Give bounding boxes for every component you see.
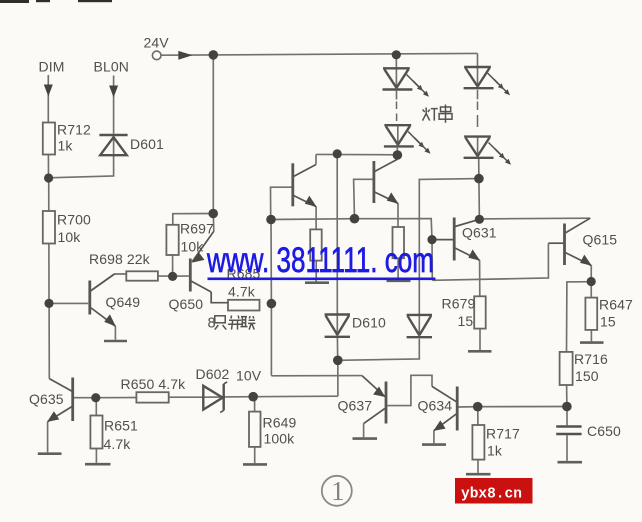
node R712 R700 — [44, 173, 53, 182]
svg-text:4.7k: 4.7k — [104, 436, 132, 452]
wire Tmid1 emitter to resistor — [315, 207, 317, 230]
wire LED4 junction to zener2 — [419, 179, 479, 315]
power terminal 24V — [152, 51, 161, 60]
ground under R649 — [243, 463, 267, 466]
ground under Q637 — [353, 437, 378, 440]
node D610 bottom — [333, 356, 343, 366]
wire zener2 bottom — [338, 339, 420, 361]
wire R717 feed — [477, 407, 479, 425]
wire R651 feed — [95, 398, 97, 416]
svg-text:10k: 10k — [58, 229, 82, 245]
wire D602 to R649 node — [224, 396, 253, 398]
wire through LED1 — [395, 69, 397, 89]
wire 24V vertical feed — [212, 55, 214, 214]
transistor Tmid1 — [293, 163, 317, 207]
svg-text:R679: R679 — [442, 296, 476, 312]
LED2 emission arrows — [408, 132, 431, 154]
label hanzi bing — [228, 316, 243, 330]
zener D602 — [203, 382, 227, 413]
wire BLON to D601 — [113, 76, 115, 134]
wire LED1 to dashes — [396, 91, 398, 100]
node Tmid2 base — [350, 214, 360, 224]
label hanzi lian — [240, 316, 255, 330]
LED string1 dashed gap — [396, 102, 398, 122]
svg-text:R651: R651 — [104, 418, 138, 434]
svg-text:10k: 10k — [181, 239, 205, 255]
wire through LED2 — [397, 126, 399, 146]
resistor R685 — [228, 300, 260, 311]
svg-text:Q650: Q650 — [169, 296, 204, 312]
wire R697 bottom to base node — [172, 255, 174, 277]
wire LED4 to junction — [478, 159, 480, 179]
wire D601 anode down and left to node — [49, 155, 114, 178]
node emitter bus top — [266, 215, 276, 225]
svg-text:Q649: Q649 — [106, 294, 141, 310]
wire Q634 emitter to ground — [433, 431, 435, 444]
wire R697 top jog — [173, 214, 213, 225]
resistor R698 — [126, 271, 158, 280]
ground under R679 — [468, 350, 492, 353]
node R685 right — [267, 299, 277, 309]
svg-text:R697: R697 — [180, 221, 214, 237]
node on 24V rail — [209, 50, 219, 60]
figure number circled 1 — [322, 476, 352, 506]
svg-text:R650 4.7k: R650 4.7k — [121, 376, 187, 392]
transistor Q650 PNP — [190, 231, 228, 302]
wire Q634 base — [459, 406, 478, 408]
transistor Q637 PNP — [362, 376, 386, 424]
resistor R679 — [474, 296, 486, 328]
node R697 top — [208, 209, 218, 219]
resistor R649 — [249, 412, 261, 447]
wire through D610b — [418, 316, 420, 337]
resistor R647 — [585, 298, 597, 330]
wire Q650 emitter feed — [212, 214, 215, 232]
wire through D601 — [113, 136, 115, 155]
svg-text:R700: R700 — [57, 212, 91, 228]
LED1 — [383, 68, 413, 89]
LED3 emission arrows — [488, 73, 511, 95]
node Q649 base — [44, 299, 53, 308]
svg-text:R649: R649 — [263, 415, 297, 431]
label lamp string hanzi deng — [423, 108, 438, 121]
svg-text:Q631: Q631 — [462, 225, 497, 241]
wire Tmid1 collector riser — [315, 154, 317, 164]
svg-text:Q637: Q637 — [338, 398, 373, 414]
transistor Tmid2 — [374, 159, 399, 204]
node Q631 collector — [475, 215, 484, 224]
node R651 top — [91, 393, 100, 402]
svg-text:R716: R716 — [574, 351, 608, 367]
GROUNDS — [38, 281, 604, 474]
node R716 C650 — [562, 402, 572, 412]
wire LED string1 top — [395, 55, 397, 68]
wire DIM chain top — [47, 75, 49, 123]
transistor Q649 — [90, 274, 116, 326]
ground under R651 — [85, 463, 111, 466]
label hanzi zhi — [215, 316, 226, 330]
LED1 emission arrows — [407, 75, 430, 97]
wire Tmid2 base — [354, 179, 373, 218]
wire node to R700 — [48, 178, 50, 211]
wire D610 node down to D602 line — [337, 360, 339, 396]
transistor Q615 — [548, 218, 591, 266]
wire resistor b to ground — [397, 258, 399, 279]
svg-text:24V: 24V — [144, 35, 170, 51]
resistor unlabeled a — [310, 229, 322, 260]
svg-text:BL0N: BL0N — [94, 59, 129, 75]
ground under Q635 — [38, 452, 62, 455]
svg-text:1: 1 — [331, 476, 345, 506]
ground under resistor b — [387, 279, 411, 282]
svg-text:R717: R717 — [486, 426, 520, 442]
diode D601 — [99, 135, 127, 155]
ground under Q649 — [104, 340, 127, 343]
svg-text:D601: D601 — [130, 136, 164, 152]
wire through LED4 — [477, 138, 479, 158]
transistor Q631 — [432, 218, 480, 261]
svg-text:DIM: DIM — [39, 59, 65, 75]
wire Q649 base — [49, 302, 88, 304]
svg-text:D610: D610 — [352, 315, 386, 331]
wire R650 to D602 — [169, 396, 203, 398]
wire R679 to ground — [479, 329, 481, 350]
svg-text:4.7k: 4.7k — [228, 284, 256, 300]
ground under R647 — [580, 341, 604, 344]
wire Q631 emitter to R679 — [479, 260, 481, 296]
wire Q631 base node down — [431, 240, 433, 281]
wire R651 to ground — [95, 449, 97, 463]
ground under Q634 — [422, 443, 446, 446]
wire emitter node to R716 — [567, 282, 592, 352]
svg-text:150: 150 — [575, 368, 599, 384]
wire base bus rail — [271, 219, 432, 240]
wire LED junction to Q631 collector node — [478, 179, 481, 220]
wire through D610 — [336, 316, 338, 337]
wire Q631 collector node to Q615 collector — [479, 217, 590, 220]
wire node to R650 — [96, 397, 137, 399]
capacitor C650 — [556, 427, 581, 435]
ybx8.cn red watermark box — [455, 478, 533, 504]
svg-text:15: 15 — [600, 314, 616, 330]
zener D610b unlabeled — [407, 315, 432, 337]
node Q615 emitter — [587, 277, 596, 286]
svg-text:ybx8.cn: ybx8.cn — [461, 487, 522, 503]
wire R716 to output node — [566, 385, 568, 407]
wire R649 feed — [254, 397, 256, 412]
wire Q637 collector to ground — [363, 424, 365, 438]
wire R649 node to D610 node vertical — [253, 395, 338, 398]
LED string2 dashed gap — [477, 102, 479, 128]
svg-text:Q615: Q615 — [583, 232, 618, 248]
wire C650 top — [566, 407, 568, 426]
TRANSISTORS — [47, 159, 592, 431]
transistor Q634 — [432, 386, 457, 431]
wire R647 to ground — [590, 330, 592, 341]
wire Q649 collector to R698 — [91, 274, 126, 291]
wire LED string2 top — [477, 53, 479, 67]
wire Q649 emitter to ground — [114, 326, 116, 340]
svg-text:1k: 1k — [58, 138, 74, 154]
node LED string2 bottom — [474, 174, 484, 184]
resistor R717 — [472, 425, 484, 460]
watermark www.3811111.com — [206, 241, 435, 280]
wire LED2 to junction — [396, 148, 398, 155]
wire Q637 base to Q634 collector — [388, 375, 433, 405]
wire 24V top rail — [161, 53, 478, 55]
resistor R650 — [136, 392, 168, 402]
wire R649 to ground — [254, 447, 256, 463]
wire collector rail — [316, 153, 398, 155]
wire output line — [478, 406, 567, 408]
svg-text:www. 3811111. com: www. 3811111. com — [206, 241, 434, 280]
svg-text:C650: C650 — [587, 423, 621, 439]
ground under R717 — [466, 473, 491, 476]
wire resistor a to ground — [315, 261, 317, 282]
node R649 top — [248, 392, 258, 402]
LED3 — [464, 67, 494, 88]
wire emitter node to R647 — [590, 282, 592, 298]
arrow BLON input — [109, 86, 118, 98]
wire R698 to Q650 base — [158, 275, 189, 277]
wire Q615 emitter drop — [590, 265, 592, 281]
wire D610 bottom to node — [336, 338, 338, 361]
resistor unlabeled b — [393, 227, 405, 258]
svg-text:Q635: Q635 — [29, 391, 64, 407]
wire arrow at 24V — [178, 51, 192, 60]
resistor R697 — [166, 225, 178, 255]
top edge scan marks — [0, 0, 112, 3]
OVERLAYS — [215, 105, 452, 330]
svg-text:15: 15 — [458, 313, 474, 329]
wire emitter bus to Q637 — [271, 375, 362, 377]
wire Q631 base node to Q615 base — [432, 243, 548, 280]
LED4 emission arrows — [489, 143, 512, 165]
resistor R651 — [90, 416, 102, 449]
svg-text:1k: 1k — [487, 443, 503, 459]
wire Tmid1 base — [271, 187, 292, 219]
wire through LED3 — [477, 68, 479, 88]
wire emitter bus vertical — [270, 220, 272, 376]
wire C650 to ground — [566, 435, 568, 461]
label lamp string hanzi chuan — [439, 105, 452, 123]
arrow DIM input — [44, 85, 53, 97]
node Q650 base — [168, 272, 177, 281]
node LED string1 bottom — [393, 150, 403, 160]
svg-text:R712: R712 — [57, 122, 91, 138]
wire through D602 — [203, 396, 223, 398]
svg-text:D602: D602 — [196, 366, 230, 382]
wire Tmid2 emitter to resistor — [397, 203, 399, 227]
LED4 — [464, 137, 494, 158]
ground under resistor a — [305, 281, 329, 284]
wire R712 to node — [47, 155, 49, 179]
wire D610 hanger — [336, 154, 338, 314]
LED2 — [384, 125, 414, 146]
node LED string1 top — [392, 50, 401, 59]
wire node down to Q635 collector — [48, 303, 50, 378]
wire LED3 to dashes — [477, 90, 479, 99]
wire Q635 base to node — [74, 397, 96, 399]
node Q631 base — [427, 235, 436, 244]
node Q634 base R717 — [473, 402, 483, 412]
zener D610 — [325, 315, 350, 337]
resistor R700 — [43, 211, 55, 244]
wire R717 to ground — [477, 460, 479, 473]
svg-text:Q634: Q634 — [418, 398, 453, 414]
svg-text:100k: 100k — [264, 431, 296, 447]
resistor R712 — [43, 123, 55, 155]
wire Q635 emitter to ground — [47, 422, 49, 453]
node D610 top — [333, 149, 342, 158]
ground under C650 — [558, 461, 583, 464]
svg-text:R698 22k: R698 22k — [89, 251, 151, 267]
svg-text:10V: 10V — [236, 368, 262, 384]
resistor R716 — [560, 352, 573, 385]
transistor Q635 — [47, 378, 73, 422]
wire R700 to Q649 base node — [48, 244, 50, 304]
svg-text:R647: R647 — [599, 297, 633, 313]
